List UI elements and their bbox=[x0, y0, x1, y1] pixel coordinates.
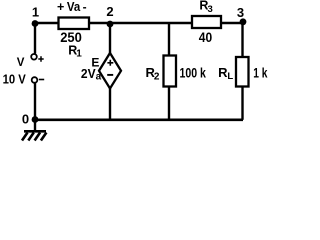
V source plus sign bbox=[38, 56, 43, 61]
label 250 (R1 value) bbox=[60, 30, 82, 45]
svg-text:+: + bbox=[57, 0, 64, 14]
node 2 junction dot bbox=[107, 21, 114, 28]
svg-text:Va: Va bbox=[67, 0, 81, 14]
svg-text:L: L bbox=[227, 71, 233, 82]
label 100 k (R2 value) bbox=[180, 66, 207, 81]
label 40 (R3 value) bbox=[199, 30, 212, 45]
node 3 junction dot bbox=[240, 18, 247, 25]
node 1 junction dot bbox=[32, 20, 39, 27]
wire top rail node1 to node3 bbox=[34, 22, 243, 25]
ground hatch strokes bbox=[22, 133, 46, 141]
wire RL bottom bbox=[241, 86, 243, 120]
node label 3 bbox=[237, 5, 244, 20]
wire R2 top bbox=[168, 23, 170, 56]
svg-text:2: 2 bbox=[106, 4, 113, 19]
svg-text:1: 1 bbox=[32, 5, 39, 20]
label E bbox=[91, 56, 99, 70]
svg-text:3: 3 bbox=[237, 5, 244, 20]
svg-text:2: 2 bbox=[154, 72, 160, 83]
wire E source bottom (diamond to bottom rail) bbox=[109, 88, 111, 120]
resistor RL body bbox=[236, 57, 249, 87]
label RL bbox=[218, 65, 233, 82]
svg-text:1 k: 1 k bbox=[253, 65, 268, 80]
svg-text:3: 3 bbox=[208, 4, 213, 15]
svg-text:10 V: 10 V bbox=[3, 71, 26, 86]
ground stem bbox=[34, 120, 36, 132]
svg-text:a: a bbox=[96, 72, 102, 83]
V source minus sign bbox=[39, 79, 44, 81]
resistor R3 body bbox=[192, 16, 221, 28]
label 2Va bbox=[81, 66, 102, 83]
ground bar bbox=[24, 130, 46, 133]
svg-text:100 k: 100 k bbox=[180, 66, 207, 81]
label V (source name) bbox=[17, 57, 25, 69]
node label 1 bbox=[32, 5, 39, 20]
label R2 bbox=[146, 65, 160, 83]
label 1 k (RL value) bbox=[253, 65, 268, 80]
dependent source E diamond bbox=[99, 53, 121, 89]
wire E source top (node2 down to diamond) bbox=[109, 23, 111, 54]
wire left branch upper (node1 to V+ terminal) bbox=[34, 23, 36, 54]
svg-text:1: 1 bbox=[76, 48, 82, 59]
svg-text:V: V bbox=[17, 57, 25, 69]
V source negative terminal circle bbox=[32, 77, 38, 83]
node label 2 bbox=[106, 4, 113, 19]
svg-text:2V: 2V bbox=[81, 66, 96, 81]
wire bottom rail bbox=[35, 119, 243, 122]
label R3 bbox=[199, 0, 212, 15]
V source positive terminal circle bbox=[31, 54, 37, 60]
plus sign inside E diamond bbox=[107, 60, 113, 66]
svg-text:40: 40 bbox=[199, 30, 212, 45]
resistor R2 body bbox=[164, 56, 177, 87]
minus sign inside E diamond bbox=[107, 74, 113, 76]
svg-text:0: 0 bbox=[22, 111, 29, 126]
wire RL top (node3 down) bbox=[241, 22, 243, 58]
label 10 V (source value) bbox=[3, 71, 26, 86]
resistor R1 body bbox=[59, 18, 90, 30]
svg-text:-: - bbox=[83, 0, 87, 14]
wire left branch lower (V- terminal to node0) bbox=[34, 83, 36, 120]
label R1 bbox=[68, 44, 82, 60]
label + Va - above R1 bbox=[57, 0, 87, 14]
wire R2 bottom bbox=[168, 86, 170, 120]
node 0 junction dot bbox=[32, 116, 39, 123]
node label 0 bbox=[22, 111, 29, 126]
